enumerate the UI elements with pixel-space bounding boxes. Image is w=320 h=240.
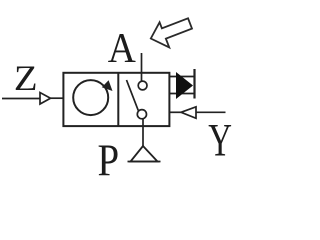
svg-text:P: P xyxy=(98,136,120,187)
svg-text:Y: Y xyxy=(208,114,232,166)
svg-text:A: A xyxy=(108,25,136,72)
svg-text:Z: Z xyxy=(14,59,38,98)
